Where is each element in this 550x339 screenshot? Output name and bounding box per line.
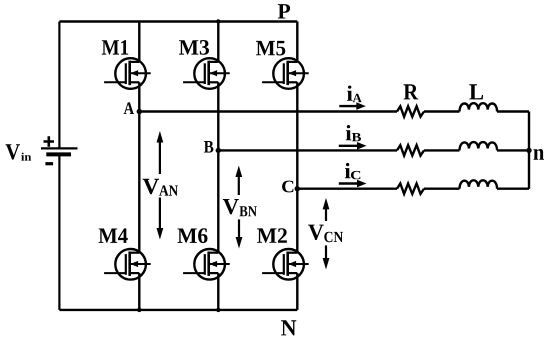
wire leg 3 (phase C half-bridge) [296,22,298,62]
wire phase A line [139,110,529,112]
label M4 [99,228,128,243]
battery Vin negative plate [46,152,71,156]
label L [469,84,483,99]
transistor M2 [262,249,309,280]
battery Vin positive plate [41,147,78,149]
inductor L phase A [460,103,498,111]
junction bottom rail leg2 [216,308,220,312]
minus sign [45,162,53,165]
label M6 [178,228,208,243]
arrow V_BN up [238,175,240,195]
arrow V_AN up [159,141,161,175]
resistor phase B [397,145,424,155]
transistor M5 [262,58,309,89]
wire neutral vertical [528,112,530,189]
arrow V_CN down [325,245,327,260]
resistor phase C [397,184,424,194]
wire phase C line [297,187,529,189]
label i_B [346,125,352,140]
transistor M6 [183,249,230,280]
label P [278,4,290,18]
transistor M4 [104,249,151,280]
wire left vertical (battery branch) [58,22,60,148]
wire leg 1 (phase A half-bridge) [138,22,140,62]
label N [281,320,296,335]
node n [526,148,531,153]
wire phase B line [218,149,529,151]
resistor R phase A [397,106,424,116]
label M5 [256,41,285,56]
inductor phase C [460,180,498,188]
arrow i_C [339,182,360,184]
top rail P [59,20,297,22]
label i_A [347,86,353,101]
label V_BN [223,199,239,214]
label Vin [6,144,21,159]
transistor M1 [104,58,151,89]
arrow V_BN down [238,219,240,239]
arrow i_A [339,105,359,107]
transistor M3 [183,58,230,89]
label M3 [179,40,209,55]
inductor phase B [460,142,498,150]
label V_AN [143,179,159,194]
label M2 [257,228,287,243]
node B [216,148,221,153]
node A [137,109,142,114]
plus sign [44,136,55,147]
label M1 [102,40,128,55]
label V_CN [308,225,324,240]
arrow V_AN down [159,198,161,231]
arrow V_CN up [325,207,327,221]
junction top rail leg2 [216,19,220,23]
label i_C [345,163,351,178]
wire leg 2 (phase B half-bridge) [217,22,219,62]
node C [295,186,300,191]
arrow i_B [339,145,360,147]
label R [404,84,419,99]
bottom rail N [59,309,297,311]
junction bottom rail leg1 [137,308,141,312]
